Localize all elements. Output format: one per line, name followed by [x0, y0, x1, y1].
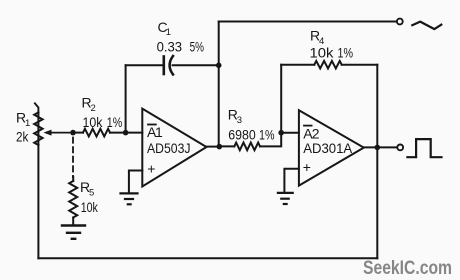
op-amp U1 A1 AD503J — [142, 109, 206, 187]
svg-text:10k: 10k — [83, 114, 104, 130]
A2 inverting bar — [304, 125, 312, 127]
R4 label — [310, 28, 354, 61]
resistor R5 — [69, 177, 77, 225]
wire output drop to bottom rail — [376, 147, 378, 258]
svg-text:5%: 5% — [190, 39, 204, 55]
wire riser A1 output to top rail — [218, 22, 220, 147]
resistor R2 — [73, 129, 126, 137]
ground at A2 — [278, 193, 293, 204]
R5 label — [80, 179, 99, 215]
R1 wiper arrow — [44, 130, 74, 136]
R1 label — [16, 110, 30, 145]
R3 label — [228, 107, 275, 143]
potentiometer R1 — [34, 103, 42, 145]
node junction R2/C1/A1 input — [123, 130, 129, 136]
svg-text:SeekIC.com: SeekIC.com — [363, 258, 452, 279]
svg-text:AD301A: AD301A — [303, 140, 353, 156]
svg-text:2: 2 — [91, 103, 96, 114]
svg-text:+: + — [303, 159, 311, 175]
svg-text:6980: 6980 — [228, 126, 256, 142]
svg-text:1%: 1% — [107, 114, 123, 130]
svg-text:AD503J: AD503J — [147, 140, 191, 156]
svg-text:1: 1 — [155, 124, 163, 140]
wire A2 non-inverting to ground — [284, 169, 299, 192]
wire to A1 inverting input — [126, 132, 143, 134]
node junction C1/top rail — [216, 63, 222, 69]
terminal square-wave output — [397, 145, 403, 151]
svg-text:3: 3 — [237, 115, 242, 126]
resistor R3 — [220, 133, 281, 151]
wire bottom rail — [38, 257, 377, 259]
A2 labels — [303, 126, 353, 175]
svg-text:+: + — [147, 160, 155, 176]
svg-text:0.33: 0.33 — [157, 39, 183, 55]
ground below R5 — [62, 226, 85, 239]
capacitor C1 — [126, 56, 219, 75]
wire A2 output — [364, 146, 397, 148]
svg-text:2k: 2k — [16, 129, 29, 145]
wire top rail to output terminal — [219, 21, 397, 23]
svg-text:1%: 1% — [259, 126, 275, 142]
svg-text:1: 1 — [166, 27, 171, 38]
wire dashed to R5 — [72, 138, 74, 178]
svg-text:1%: 1% — [338, 45, 354, 61]
ground at A1 — [121, 193, 138, 204]
svg-text:1: 1 — [25, 118, 30, 129]
terminal triangle-wave output — [397, 19, 403, 25]
wire to A2 inverting input — [281, 132, 299, 134]
node junction A2 output — [375, 145, 381, 151]
node junction R3/R4/A2 input — [278, 130, 284, 136]
wire A1 output — [207, 146, 220, 148]
resistor R4 feedback — [281, 61, 377, 148]
svg-text:10k: 10k — [81, 199, 99, 215]
square wave symbol — [407, 139, 441, 157]
C1 label — [157, 19, 204, 55]
A1 labels — [147, 124, 191, 176]
A1 inverting bar — [148, 124, 156, 126]
svg-text:10k: 10k — [310, 45, 335, 61]
wire C1 left riser — [125, 65, 127, 132]
svg-text:5: 5 — [89, 188, 94, 199]
node junction wiper/R2/R5 — [70, 130, 76, 136]
wire R1 bottom leg — [37, 145, 39, 258]
R2 label — [82, 95, 123, 130]
triangle wave symbol — [412, 22, 441, 30]
node junction A1 output — [217, 144, 223, 150]
wire A1 non-inverting to ground — [129, 171, 142, 193]
op-amp U2 A2 AD301A — [299, 110, 364, 185]
